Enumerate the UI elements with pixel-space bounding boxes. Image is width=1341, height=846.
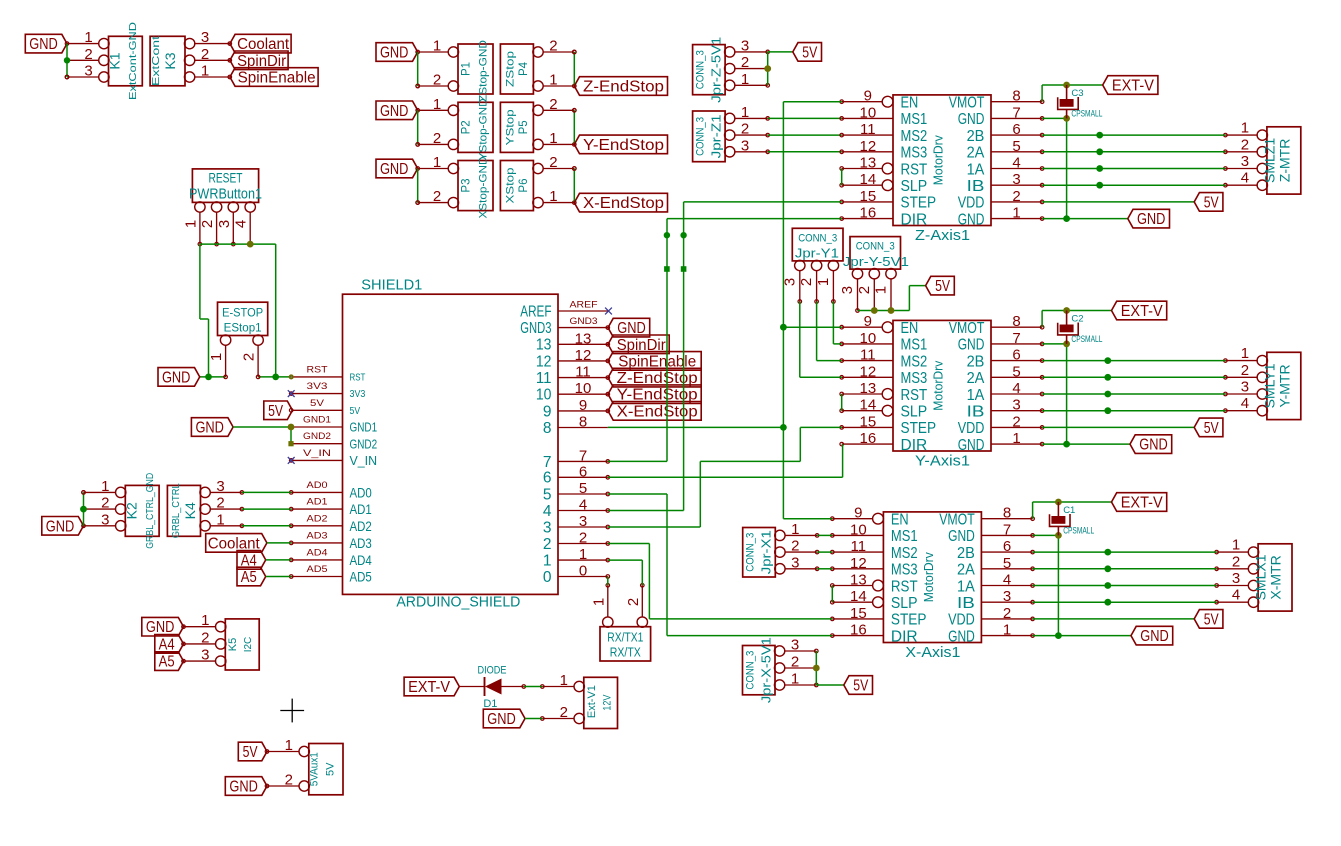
svg-text:EXT-V: EXT-V	[1121, 495, 1164, 512]
svg-text:2: 2	[216, 495, 224, 512]
svg-text:Y-EndStop: Y-EndStop	[583, 137, 664, 154]
svg-text:P1: P1	[461, 62, 473, 76]
svg-text:ARDUINO_SHIELD: ARDUINO_SHIELD	[396, 595, 520, 611]
svg-text:8: 8	[1003, 505, 1011, 522]
svg-text:2: 2	[856, 286, 873, 294]
svg-text:10: 10	[575, 380, 592, 397]
svg-text:1: 1	[579, 546, 587, 563]
svg-text:GND: GND	[1137, 211, 1166, 228]
svg-text:GND: GND	[195, 420, 224, 437]
svg-text:7: 7	[1012, 330, 1020, 347]
svg-text:6: 6	[579, 463, 587, 480]
svg-text:2: 2	[741, 121, 749, 138]
svg-text:3: 3	[1241, 153, 1249, 170]
svg-text:5VAux1: 5VAux1	[309, 752, 321, 786]
svg-text:GND: GND	[46, 518, 75, 535]
svg-text:3V3: 3V3	[350, 389, 366, 400]
svg-text:3: 3	[839, 286, 856, 294]
svg-text:AD5: AD5	[350, 569, 372, 585]
svg-text:2: 2	[201, 629, 209, 646]
svg-text:4: 4	[1241, 395, 1249, 412]
svg-text:SMLX1: SMLX1	[1253, 554, 1269, 600]
svg-text:1: 1	[208, 353, 225, 361]
svg-text:3: 3	[1012, 171, 1020, 188]
svg-text:GND: GND	[380, 103, 409, 120]
svg-text:SMLY1: SMLY1	[1262, 363, 1278, 408]
svg-text:10: 10	[860, 104, 877, 121]
svg-text:2: 2	[84, 46, 92, 63]
svg-text:P3: P3	[461, 179, 473, 193]
svg-text:6: 6	[1012, 347, 1020, 364]
svg-text:3: 3	[216, 478, 224, 495]
svg-text:1: 1	[201, 63, 209, 80]
svg-text:14: 14	[860, 171, 877, 188]
svg-text:10: 10	[536, 387, 552, 404]
svg-text:X-Axis1: X-Axis1	[905, 644, 960, 661]
svg-text:5V: 5V	[310, 398, 325, 409]
svg-text:AREF: AREF	[570, 300, 598, 311]
svg-text:ZStop-GND: ZStop-GND	[478, 40, 490, 102]
svg-text:3: 3	[741, 137, 749, 154]
svg-text:STEP: STEP	[891, 612, 927, 629]
svg-text:1: 1	[815, 278, 832, 286]
svg-text:1: 1	[101, 478, 109, 495]
svg-text:1: 1	[1232, 537, 1240, 554]
svg-text:GND: GND	[958, 337, 985, 354]
svg-text:Jpr-Y1: Jpr-Y1	[795, 246, 839, 261]
svg-text:RST: RST	[350, 373, 366, 384]
svg-text:5V: 5V	[935, 278, 951, 295]
svg-text:3: 3	[1003, 588, 1011, 605]
svg-text:P5: P5	[518, 120, 530, 134]
svg-text:1: 1	[543, 553, 552, 570]
svg-text:4: 4	[1003, 572, 1011, 589]
svg-text:8: 8	[1012, 313, 1020, 330]
svg-text:1: 1	[791, 671, 799, 688]
svg-text:DIR: DIR	[901, 211, 928, 228]
svg-text:2: 2	[741, 54, 749, 71]
svg-text:MS3: MS3	[901, 145, 928, 162]
svg-text:CPSMALL: CPSMALL	[1071, 334, 1102, 345]
svg-text:1: 1	[182, 220, 199, 228]
svg-text:2: 2	[433, 188, 441, 205]
svg-text:A5: A5	[241, 569, 257, 586]
svg-text:11: 11	[860, 347, 876, 364]
svg-text:Z-EndStop: Z-EndStop	[583, 79, 664, 96]
svg-text:7: 7	[579, 447, 587, 464]
svg-text:A4: A4	[159, 636, 175, 653]
svg-text:2: 2	[1241, 136, 1249, 153]
svg-text:1: 1	[549, 188, 557, 205]
svg-text:RST: RST	[901, 387, 928, 404]
svg-text:11: 11	[575, 364, 591, 381]
svg-text:2: 2	[543, 536, 552, 553]
svg-text:C3: C3	[1071, 88, 1083, 99]
svg-text:GND2: GND2	[350, 436, 378, 451]
svg-text:5: 5	[543, 486, 552, 503]
svg-text:9: 9	[864, 88, 872, 105]
svg-text:5: 5	[1012, 138, 1020, 155]
svg-text:12: 12	[850, 555, 867, 572]
svg-text:CONN_3: CONN_3	[856, 241, 895, 253]
svg-text:DIR: DIR	[891, 628, 918, 645]
svg-text:1: 1	[560, 672, 568, 689]
svg-text:2: 2	[433, 72, 441, 89]
svg-text:ExtCont-GND: ExtCont-GND	[127, 22, 139, 100]
svg-text:2: 2	[1241, 362, 1249, 379]
svg-text:EStop1: EStop1	[224, 321, 262, 335]
svg-text:K4: K4	[182, 502, 198, 519]
svg-text:X-EndStop: X-EndStop	[617, 403, 698, 420]
svg-text:RESET: RESET	[209, 171, 243, 186]
svg-text:2: 2	[549, 96, 557, 113]
svg-text:EXT-V: EXT-V	[1112, 78, 1155, 95]
svg-text:CPSMALL: CPSMALL	[1063, 526, 1094, 537]
svg-text:MS3: MS3	[901, 370, 928, 387]
svg-text:CONN_3: CONN_3	[695, 117, 707, 156]
svg-text:RX/TX1: RX/TX1	[607, 631, 643, 645]
svg-text:10: 10	[850, 521, 867, 538]
svg-text:1: 1	[84, 29, 92, 46]
svg-text:GND: GND	[958, 111, 985, 128]
svg-text:13: 13	[575, 330, 592, 347]
svg-text:2B: 2B	[967, 128, 985, 145]
svg-text:XStop: XStop	[504, 168, 516, 204]
svg-text:P6: P6	[518, 179, 530, 193]
svg-text:5V: 5V	[243, 744, 259, 761]
svg-text:AD5: AD5	[307, 564, 328, 575]
svg-text:3V3: 3V3	[307, 381, 328, 392]
svg-text:Y-MTR: Y-MTR	[1277, 364, 1293, 407]
svg-text:C1: C1	[1063, 505, 1075, 516]
svg-text:13: 13	[850, 572, 867, 589]
svg-text:1: 1	[1241, 120, 1249, 137]
svg-text:3: 3	[216, 220, 233, 228]
svg-text:3: 3	[791, 637, 799, 654]
svg-text:GND: GND	[1140, 628, 1169, 645]
svg-text:VMOT: VMOT	[949, 95, 985, 112]
svg-text:8: 8	[1012, 88, 1020, 105]
svg-text:GRBL_CTRL_GND: GRBL_CTRL_GND	[144, 472, 156, 548]
svg-text:C2: C2	[1071, 314, 1083, 325]
svg-text:Z-Axis1: Z-Axis1	[915, 227, 970, 244]
svg-text:3: 3	[543, 519, 552, 536]
svg-text:5: 5	[1003, 555, 1011, 572]
svg-text:AD0: AD0	[350, 484, 372, 500]
svg-text:8: 8	[543, 420, 552, 437]
svg-text:GND: GND	[380, 45, 409, 62]
svg-text:15: 15	[850, 605, 867, 622]
svg-text:MS2: MS2	[901, 353, 928, 370]
svg-text:2: 2	[1012, 188, 1020, 205]
svg-text:14: 14	[850, 588, 867, 605]
svg-text:0: 0	[543, 569, 552, 586]
svg-text:2: 2	[1232, 553, 1240, 570]
svg-text:2: 2	[433, 130, 441, 147]
svg-text:4: 4	[1232, 587, 1240, 604]
svg-text:6: 6	[543, 470, 552, 487]
svg-text:PWRButton1: PWRButton1	[189, 186, 262, 203]
svg-text:3: 3	[101, 511, 109, 528]
svg-text:GND: GND	[948, 528, 975, 545]
svg-text:Z-MTR: Z-MTR	[1277, 139, 1293, 183]
svg-text:AD3: AD3	[350, 535, 372, 551]
svg-text:YStop-GND: YStop-GND	[478, 98, 490, 160]
svg-text:2B: 2B	[957, 545, 975, 562]
svg-text:AD1: AD1	[307, 497, 328, 508]
svg-text:YStop: YStop	[504, 109, 516, 145]
svg-text:1: 1	[285, 737, 293, 754]
svg-text:1: 1	[549, 130, 557, 147]
svg-text:VMOT: VMOT	[949, 320, 985, 337]
svg-text:16: 16	[850, 622, 867, 639]
svg-text:MS1: MS1	[901, 111, 928, 128]
svg-text:2: 2	[791, 538, 799, 555]
svg-text:RST: RST	[307, 364, 328, 375]
svg-text:3: 3	[1012, 397, 1020, 414]
svg-text:EN: EN	[891, 512, 909, 529]
svg-text:1: 1	[741, 104, 749, 121]
svg-text:4: 4	[233, 220, 250, 228]
svg-text:2: 2	[201, 46, 209, 63]
svg-text:E-STOP: E-STOP	[222, 306, 263, 320]
svg-text:MotorDrv: MotorDrv	[922, 551, 936, 602]
svg-text:2: 2	[549, 38, 557, 55]
svg-text:11: 11	[851, 538, 867, 555]
svg-text:EXT-V: EXT-V	[408, 679, 451, 696]
svg-text:8: 8	[579, 414, 587, 431]
svg-text:12V: 12V	[602, 694, 614, 711]
svg-text:12: 12	[575, 347, 592, 364]
svg-text:1: 1	[741, 71, 749, 88]
svg-text:Y-Axis1: Y-Axis1	[915, 453, 970, 470]
svg-text:5V: 5V	[802, 44, 818, 61]
svg-text:GND1: GND1	[303, 415, 331, 426]
svg-text:15: 15	[860, 413, 877, 430]
svg-text:AREF: AREF	[520, 303, 551, 320]
svg-text:1: 1	[433, 38, 441, 55]
svg-text:12: 12	[536, 353, 552, 370]
svg-text:2: 2	[798, 278, 815, 286]
svg-text:A5: A5	[159, 654, 175, 671]
svg-text:1: 1	[590, 598, 607, 606]
svg-text:Ext-V1: Ext-V1	[586, 685, 598, 718]
svg-text:MotorDrv: MotorDrv	[932, 360, 946, 411]
svg-text:GND: GND	[380, 161, 409, 178]
svg-text:IB: IB	[967, 404, 985, 421]
svg-text:CONN_3: CONN_3	[798, 233, 837, 245]
svg-text:RST: RST	[901, 161, 928, 178]
svg-text:16: 16	[860, 205, 877, 222]
svg-text:5V: 5V	[853, 678, 869, 695]
svg-text:7: 7	[543, 454, 552, 471]
svg-text:GND: GND	[229, 779, 258, 796]
svg-text:GND: GND	[162, 369, 191, 386]
svg-text:MotorDrv: MotorDrv	[932, 134, 946, 185]
svg-text:3: 3	[84, 63, 92, 80]
svg-text:MS2: MS2	[891, 545, 918, 562]
svg-text:2: 2	[241, 353, 258, 361]
svg-text:2B: 2B	[967, 353, 985, 370]
svg-text:K3: K3	[162, 52, 178, 69]
svg-text:4: 4	[579, 497, 587, 514]
svg-text:P2: P2	[461, 120, 473, 134]
svg-text:6: 6	[1003, 538, 1011, 555]
svg-text:9: 9	[854, 505, 862, 522]
svg-text:VDD: VDD	[958, 420, 985, 437]
svg-text:0: 0	[579, 563, 587, 580]
svg-text:GND: GND	[487, 711, 516, 728]
svg-text:VMOT: VMOT	[939, 512, 975, 529]
svg-text:2: 2	[560, 704, 568, 721]
svg-text:SpinEnable: SpinEnable	[238, 70, 316, 87]
svg-text:2A: 2A	[967, 145, 985, 162]
svg-text:5V: 5V	[350, 406, 361, 417]
svg-text:5V: 5V	[1204, 194, 1220, 211]
svg-text:13: 13	[860, 155, 877, 172]
svg-text:ZStop: ZStop	[504, 51, 516, 87]
svg-text:X-EndStop: X-EndStop	[583, 195, 664, 212]
svg-text:VDD: VDD	[958, 195, 985, 212]
svg-text:K1: K1	[107, 52, 123, 69]
svg-text:14: 14	[860, 397, 877, 414]
svg-text:3: 3	[201, 29, 209, 46]
svg-text:DIR: DIR	[901, 437, 928, 454]
svg-text:MS1: MS1	[901, 337, 928, 354]
svg-text:6: 6	[1012, 121, 1020, 138]
svg-text:MS3: MS3	[891, 562, 918, 579]
svg-text:3: 3	[579, 513, 587, 530]
svg-text:1A: 1A	[967, 161, 985, 178]
svg-text:1: 1	[873, 286, 890, 294]
svg-text:STEP: STEP	[901, 420, 937, 437]
svg-text:9: 9	[543, 403, 552, 420]
svg-text:1: 1	[1241, 345, 1249, 362]
svg-text:K2: K2	[123, 502, 139, 519]
svg-text:7: 7	[1003, 521, 1011, 538]
svg-text:GND1: GND1	[350, 420, 378, 435]
svg-text:CONN_3: CONN_3	[695, 50, 707, 89]
svg-text:2A: 2A	[967, 370, 985, 387]
svg-text:V_IN: V_IN	[350, 453, 378, 468]
svg-text:I2C: I2C	[243, 637, 254, 653]
svg-text:AD4: AD4	[350, 552, 372, 568]
svg-text:MS2: MS2	[901, 128, 928, 145]
svg-text:10: 10	[860, 330, 877, 347]
svg-text:EXT-V: EXT-V	[1121, 303, 1164, 320]
svg-text:2: 2	[1003, 605, 1011, 622]
svg-text:5V: 5V	[325, 762, 337, 776]
svg-text:2: 2	[625, 598, 642, 606]
svg-text:CPSMALL: CPSMALL	[1071, 109, 1102, 120]
svg-text:GND: GND	[29, 36, 58, 53]
svg-text:IB: IB	[967, 178, 985, 195]
svg-text:15: 15	[860, 188, 877, 205]
svg-text:AD0: AD0	[307, 480, 328, 491]
svg-text:GND: GND	[958, 211, 985, 228]
svg-text:11: 11	[536, 370, 552, 387]
svg-text:AD2: AD2	[307, 513, 328, 524]
svg-text:4: 4	[543, 503, 552, 520]
svg-text:9: 9	[864, 313, 872, 330]
svg-text:4: 4	[1012, 155, 1020, 172]
svg-text:3: 3	[791, 554, 799, 571]
svg-text:Jpr-Z-5V1: Jpr-Z-5V1	[709, 37, 724, 103]
svg-text:1: 1	[216, 511, 224, 528]
svg-text:ExtCont: ExtCont	[150, 36, 162, 86]
svg-text:SMLZ1: SMLZ1	[1262, 138, 1278, 183]
svg-text:AD1: AD1	[350, 501, 372, 517]
svg-text:V_IN: V_IN	[303, 448, 331, 459]
svg-text:5: 5	[579, 480, 587, 497]
svg-text:2: 2	[101, 495, 109, 512]
svg-text:EN: EN	[901, 95, 919, 112]
svg-text:Jpr-X-5V1: Jpr-X-5V1	[759, 637, 774, 703]
svg-text:VDD: VDD	[948, 612, 975, 629]
svg-text:3: 3	[1241, 379, 1249, 396]
svg-text:GND3: GND3	[570, 316, 598, 327]
svg-text:2: 2	[199, 220, 216, 228]
svg-text:12: 12	[860, 138, 877, 155]
svg-text:GND3: GND3	[520, 320, 551, 337]
svg-text:EN: EN	[901, 320, 919, 337]
svg-text:Jpr-Y-5V1: Jpr-Y-5V1	[843, 254, 909, 269]
svg-text:P4: P4	[518, 61, 530, 76]
svg-text:IB: IB	[957, 595, 975, 612]
svg-text:5V: 5V	[268, 403, 284, 420]
svg-text:GND: GND	[1139, 437, 1168, 454]
svg-text:STEP: STEP	[901, 195, 937, 212]
svg-text:DIODE: DIODE	[478, 665, 507, 677]
svg-text:2: 2	[285, 772, 293, 789]
svg-text:Jpr-X1: Jpr-X1	[759, 530, 774, 574]
svg-text:9: 9	[579, 397, 587, 414]
svg-text:RST: RST	[891, 578, 918, 595]
svg-text:SLP: SLP	[891, 595, 918, 612]
svg-text:1: 1	[549, 72, 557, 89]
svg-text:5V: 5V	[1204, 611, 1220, 628]
svg-text:1: 1	[1003, 622, 1011, 639]
svg-text:5V: 5V	[1204, 420, 1220, 437]
svg-text:1A: 1A	[967, 387, 985, 404]
svg-text:K5: K5	[227, 638, 239, 651]
svg-text:GND: GND	[958, 437, 985, 454]
svg-text:XStop-GND: XStop-GND	[478, 156, 490, 218]
svg-text:SHIELD1: SHIELD1	[361, 277, 422, 294]
svg-text:X-MTR: X-MTR	[1268, 555, 1284, 599]
svg-text:CONN_3: CONN_3	[745, 533, 757, 572]
svg-text:3: 3	[741, 37, 749, 54]
svg-text:CONN_3: CONN_3	[745, 651, 757, 690]
svg-text:12: 12	[860, 363, 877, 380]
svg-text:1: 1	[1012, 205, 1020, 222]
svg-text:D1: D1	[483, 698, 497, 710]
svg-text:Jpr-Z1: Jpr-Z1	[709, 114, 724, 158]
svg-text:2A: 2A	[957, 562, 975, 579]
svg-text:2: 2	[1012, 413, 1020, 430]
svg-text:1A: 1A	[957, 578, 975, 595]
svg-text:GRBL_CTRL: GRBL_CTRL	[170, 483, 182, 538]
svg-text:SLP: SLP	[901, 178, 928, 195]
svg-text:GND: GND	[146, 619, 175, 636]
svg-text:2: 2	[791, 654, 799, 671]
svg-text:1: 1	[433, 96, 441, 113]
svg-text:2: 2	[549, 154, 557, 171]
svg-text:7: 7	[1012, 104, 1020, 121]
svg-text:13: 13	[860, 380, 877, 397]
svg-text:AD4: AD4	[307, 547, 328, 558]
svg-text:1: 1	[433, 154, 441, 171]
